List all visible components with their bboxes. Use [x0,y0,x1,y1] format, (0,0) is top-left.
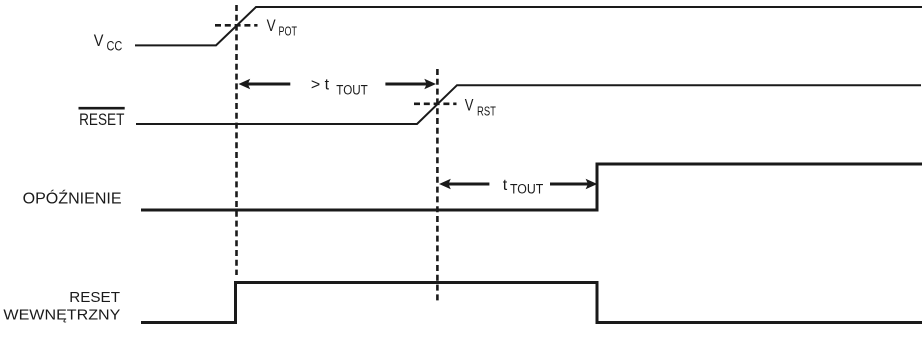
threshold line V_POT horizontal dashed [215,24,258,27]
svg-text:CC: CC [107,39,123,54]
label t_TOUT [503,177,544,197]
svg-text:TOUT: TOUT [336,83,368,98]
svg-text:V: V [465,96,474,114]
svg-text:t: t [503,177,508,194]
label Vcc [94,32,123,54]
RESET waveform [136,85,921,124]
label V_POT [267,16,298,38]
svg-text:V: V [94,32,104,50]
RESET WEWNETRZNY waveform [141,283,922,323]
svg-text:RESET: RESET [69,289,120,306]
arrow right of > t_TOUT interval [385,79,436,89]
timing reference dashed vertical line 1 [235,5,238,275]
label RESET with overline [79,108,125,129]
label V_RST [465,96,496,118]
svg-text:TOUT: TOUT [510,182,543,197]
svg-text:WEWNĘTRZNY: WEWNĘTRZNY [3,306,120,323]
arrow left of t_TOUT interval [439,179,489,189]
arrow left of > t_TOUT interval [239,79,291,89]
timing reference dashed vertical line 2 [436,69,439,302]
svg-text:POT: POT [279,24,298,39]
svg-text:V: V [267,16,277,35]
svg-text:RESET: RESET [79,111,124,129]
threshold line V_RST horizontal dashed [414,103,457,106]
svg-text:OPÓŹNIENIE: OPÓŹNIENIE [23,191,122,208]
Vcc waveform [135,7,922,45]
svg-text:> t: > t [311,77,330,94]
label > t_TOUT [311,77,368,98]
svg-text:RST: RST [477,104,496,119]
OPOZNIENIE waveform [141,164,922,210]
label RESET WEWNETRZNY [3,289,120,324]
arrow right of t_TOUT interval [550,179,597,189]
